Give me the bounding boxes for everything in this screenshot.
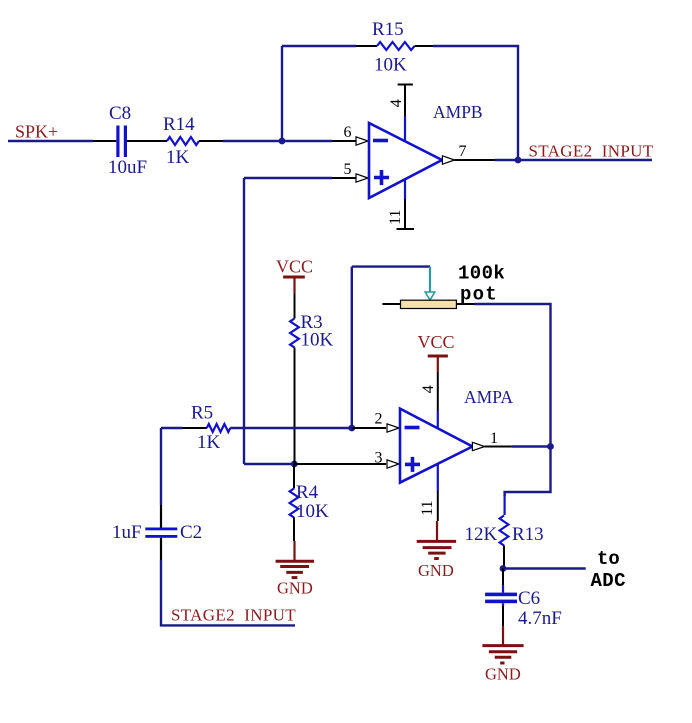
- wire feedback top left: [282, 45, 356, 47]
- svg-text:pot: pot: [460, 284, 498, 306]
- wire pin2 stub: [352, 427, 386, 429]
- pin arrow 2: [387, 424, 399, 432]
- wire C6 top stub: [502, 585, 504, 593]
- wire pot right stub: [456, 303, 474, 305]
- capacitor C6: [485, 593, 517, 606]
- resistor R14: [167, 137, 199, 145]
- svg-text:2: 2: [375, 411, 383, 428]
- svg-text:VCC: VCC: [418, 332, 455, 352]
- potentiometer 100k pot body: [401, 300, 457, 308]
- pin 11 stub AMPB: [397, 179, 415, 229]
- ground GND for AMPA: [417, 521, 456, 580]
- svg-text:1K: 1K: [197, 432, 221, 453]
- wire output node to R13 jog: [505, 447, 551, 497]
- wire wiper loop vertical: [351, 267, 353, 428]
- wire pin5 vertical net down: [243, 178, 245, 464]
- wire SPK+ lead: [8, 140, 93, 142]
- svg-text:7: 7: [459, 143, 467, 160]
- wire C2 to STAGE2 INPUT: [161, 560, 295, 625]
- svg-text:1: 1: [490, 430, 498, 447]
- wire feedback top right: [433, 46, 518, 160]
- wire pin7 stub: [455, 159, 495, 161]
- svg-text:SPK+: SPK+: [15, 122, 58, 142]
- capacitor C8: [116, 126, 127, 158]
- svg-text:AMPA: AMPA: [464, 387, 513, 407]
- pin arrow 1 output: [472, 442, 484, 450]
- svg-text:VCC: VCC: [276, 257, 313, 277]
- junction pin2 node: [348, 425, 355, 432]
- wire bias node to R4: [293, 464, 295, 489]
- wiper arrow cyan: [425, 267, 435, 300]
- resistor R4: [290, 489, 299, 518]
- op-amp U:AMPB: [369, 123, 442, 198]
- svg-text:GND: GND: [418, 561, 454, 580]
- resistor R15: [377, 42, 415, 50]
- svg-text:C2: C2: [180, 522, 202, 543]
- resistor R5: [207, 424, 230, 432]
- svg-text:10uF: 10uF: [108, 157, 147, 178]
- pin 4 stub AMPB: [398, 85, 413, 142]
- wire C2 top stub: [160, 505, 162, 528]
- svg-text:C6: C6: [518, 588, 540, 609]
- wire R13 top stub: [504, 494, 506, 515]
- junction output node AMPA: [547, 443, 554, 450]
- pin 11 stub AMPA: [437, 464, 439, 521]
- wire C8 to R14: [127, 140, 167, 142]
- wire bias net horizontal: [244, 463, 294, 465]
- svg-text:GND: GND: [277, 579, 313, 598]
- wire R4 to GND: [293, 517, 295, 541]
- svg-text:10K: 10K: [301, 330, 334, 351]
- junction ADC node: [500, 565, 507, 572]
- pin arrow 6: [356, 137, 368, 145]
- junction node at R14/feedback: [279, 138, 286, 145]
- svg-text:R13: R13: [512, 524, 544, 545]
- wire R15 left stub: [356, 45, 377, 47]
- wire feedback left vertical: [281, 46, 283, 141]
- junction output node STAGE2: [515, 157, 522, 164]
- pin 4 stub AMPA: [437, 411, 439, 428]
- wire pin1 stub: [485, 446, 512, 448]
- svg-text:10K: 10K: [296, 501, 329, 522]
- svg-text:5: 5: [344, 161, 352, 178]
- wire VCC to R3: [294, 293, 296, 318]
- wire R3 to bias node: [294, 348, 296, 465]
- wire pin5 stub: [332, 177, 356, 179]
- wire C2 bottom stub: [160, 538, 162, 560]
- svg-text:12K: 12K: [465, 524, 498, 545]
- svg-text:R4: R4: [296, 482, 319, 503]
- resistor R13: [500, 516, 509, 546]
- wire R5 net from C2: [161, 427, 183, 429]
- svg-text:6: 6: [344, 124, 352, 141]
- svg-text:GND: GND: [485, 665, 521, 684]
- svg-text:STAGE2 INPUT: STAGE2 INPUT: [171, 606, 296, 625]
- svg-text:R15: R15: [372, 19, 404, 40]
- svg-text:AMPB: AMPB: [433, 102, 483, 122]
- svg-text:to: to: [597, 548, 620, 570]
- ground GND for C6: [482, 626, 523, 684]
- svg-text:C8: C8: [109, 103, 131, 124]
- wire wiper loop horizontal: [352, 265, 430, 267]
- op-amp U:AMPA: [400, 409, 473, 483]
- svg-text:11: 11: [419, 500, 436, 515]
- wire C6 to GND: [502, 606, 504, 626]
- svg-text:11: 11: [387, 209, 404, 224]
- resistor R3: [290, 319, 299, 348]
- ground GND for R4: [276, 541, 314, 598]
- wire R15 right stub: [415, 45, 433, 47]
- wire pot to output node: [475, 304, 551, 447]
- wire C8 left stub: [93, 140, 116, 142]
- wire R14 to node: [223, 140, 282, 142]
- wire R14 right stub: [199, 140, 223, 142]
- wire C2 net vertical: [160, 428, 162, 505]
- capacitor C2: [145, 528, 177, 538]
- wire R13 to ADC node: [503, 546, 505, 569]
- pin arrow 5: [356, 174, 368, 182]
- wire pin3 stub: [294, 463, 386, 465]
- wire STAGE2 INPUT net: [518, 159, 652, 161]
- svg-text:R14: R14: [163, 114, 195, 135]
- wire pin6 stub: [332, 140, 356, 142]
- wire pot left stub: [382, 303, 400, 305]
- wire pin7 to node: [495, 159, 518, 161]
- svg-text:10K: 10K: [374, 55, 407, 76]
- wire R5 left stub: [183, 427, 207, 429]
- svg-text:4: 4: [388, 99, 405, 107]
- wire ADC node to C6: [502, 569, 504, 587]
- power VCC for AMPA: [418, 332, 455, 372]
- svg-text:4: 4: [420, 385, 437, 393]
- svg-text:1uF: 1uF: [112, 522, 142, 543]
- svg-text:STAGE2 INPUT: STAGE2 INPUT: [529, 142, 654, 161]
- wire pin6 net: [282, 140, 332, 142]
- wire R5 to pin2 node: [230, 427, 352, 429]
- wire pin1 to node: [512, 445, 551, 447]
- wire VCC to AMPA pin4: [437, 372, 439, 411]
- svg-text:4.7nF: 4.7nF: [518, 608, 562, 629]
- svg-text:1K: 1K: [166, 147, 190, 168]
- wire pin5 net: [244, 177, 332, 179]
- junction bias node: [291, 461, 298, 468]
- pin arrow 3: [387, 460, 399, 468]
- svg-text:ADC: ADC: [591, 570, 626, 592]
- svg-text:3: 3: [375, 450, 383, 467]
- svg-text:100k: 100k: [458, 263, 505, 285]
- svg-text:R5: R5: [191, 403, 213, 424]
- pin arrow 7 output: [442, 156, 454, 164]
- wire to ADC: [503, 567, 586, 569]
- power VCC for R3: [276, 257, 313, 294]
